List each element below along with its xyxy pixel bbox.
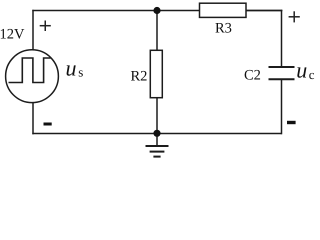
plus sign at capacitor +	[289, 11, 300, 22]
svg-text:12V: 12V	[0, 27, 25, 43]
ground symbol	[146, 146, 169, 157]
svg-text:s: s	[78, 64, 83, 79]
wire: source - terminal down to bottom wire	[32, 103, 34, 135]
node A junction dot (top wire / R2)	[153, 7, 160, 14]
svg-text:C2: C2	[244, 68, 261, 84]
wire: right branch down to C2 top plate	[281, 10, 283, 67]
minus sign at capacitor -	[287, 121, 296, 124]
bottom junction dot (bottom wire / ground)	[153, 130, 160, 137]
wire: ground stub	[156, 134, 158, 146]
resistor R3 (horizontal box)	[200, 3, 247, 17]
wire: left branch from top wire down to source + terminal	[32, 10, 34, 50]
svg-text:R3: R3	[215, 20, 232, 36]
capacitor C2 bottom plate	[269, 78, 295, 80]
svg-text:c: c	[309, 67, 315, 82]
wire: R2 top lead from node A	[156, 11, 158, 51]
resistor R2 (vertical box)	[150, 50, 162, 97]
top wire	[32, 10, 282, 12]
plus sign at source + terminal	[40, 21, 51, 32]
bottom wire	[32, 133, 281, 135]
wire: C2 bottom plate down to bottom wire	[281, 80, 283, 135]
svg-text:R2: R2	[131, 69, 148, 85]
svg-text:u: u	[296, 58, 307, 83]
square wave symbol inside source	[9, 58, 51, 83]
wire: R2 bottom lead to bottom wire	[156, 98, 158, 134]
wire: R3 right lead	[246, 10, 282, 12]
svg-text:u: u	[66, 55, 77, 80]
minus sign at source - terminal	[44, 123, 52, 126]
capacitor C2 top plate	[269, 66, 295, 68]
voltage source us (circle)	[6, 50, 59, 103]
